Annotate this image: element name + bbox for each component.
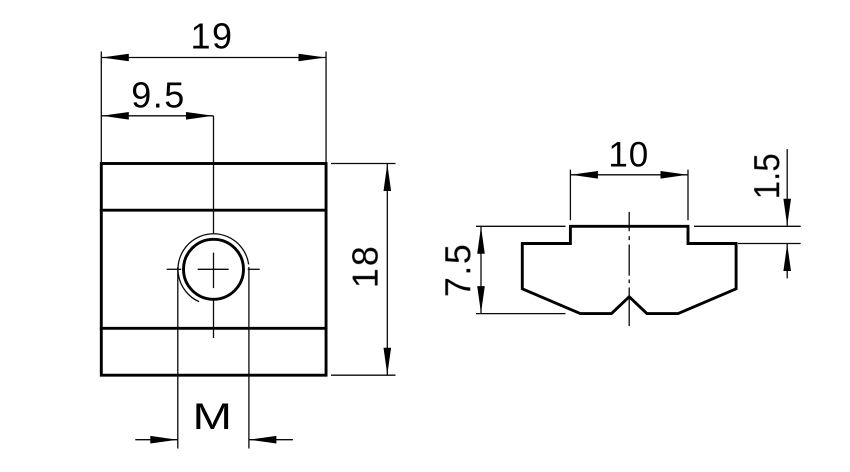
dimension 18 arrow bottom xyxy=(384,348,392,375)
hole centerline vertical xyxy=(213,116,215,338)
svg-text:18: 18 xyxy=(345,244,386,288)
dimension 1.5 arrow upper xyxy=(783,199,791,226)
dimension 7.5 extension line bottom xyxy=(476,313,566,315)
dimension 18 line xyxy=(386,164,388,376)
dimension 19 extension line left xyxy=(100,52,102,163)
dimension M extension line left xyxy=(177,267,179,449)
side profile outline xyxy=(522,226,736,313)
svg-text:9.5: 9.5 xyxy=(131,75,186,116)
dimension 7.5 extension line top xyxy=(476,225,566,227)
svg-text:10: 10 xyxy=(608,135,649,174)
dimension 10 extension line right xyxy=(687,170,689,221)
dimension 9.5 arrow left xyxy=(102,112,129,120)
dimension 7.5 line xyxy=(480,226,482,313)
dimension 18 extension line top xyxy=(331,163,396,165)
threaded hole circle xyxy=(184,239,244,299)
dimension M extension line right xyxy=(248,267,250,449)
dimension 1.5 arrow lower xyxy=(783,244,791,271)
dimension 10 line xyxy=(570,174,688,176)
groove line lower xyxy=(101,327,326,330)
svg-text:1.5: 1.5 xyxy=(746,153,787,199)
side profile centerline xyxy=(628,212,630,326)
dimension M arrow left xyxy=(150,436,177,444)
dimension 9.5 line xyxy=(101,115,213,117)
dimension 10 arrow right xyxy=(661,171,688,179)
dimension 1.5 line upper xyxy=(786,149,788,226)
svg-text:M: M xyxy=(193,396,233,437)
dimension 9.5 arrow right xyxy=(186,112,213,120)
front view body outline xyxy=(101,164,326,376)
dimension 1.5 extension line bottom xyxy=(738,243,801,245)
dimension M line left tail xyxy=(135,439,178,441)
dimension 7.5 arrow top xyxy=(477,227,485,254)
dimension 18 extension line bottom xyxy=(331,374,396,376)
groove line upper xyxy=(101,209,326,212)
dimension 19 arrow right xyxy=(299,54,326,62)
dimension 19 extension line right xyxy=(325,52,327,163)
dimension 10 extension line left xyxy=(569,170,571,221)
svg-text:7.5: 7.5 xyxy=(437,243,478,298)
dimension M line right tail xyxy=(249,439,293,441)
dimension 18 arrow top xyxy=(384,164,392,191)
dimension 1.5 line lower xyxy=(786,244,788,279)
dimension 10 arrow left xyxy=(571,171,598,179)
dimension M arrow right xyxy=(249,436,276,444)
thread outer arc xyxy=(178,234,249,302)
hole centerline horizontal xyxy=(167,268,260,270)
svg-text:19: 19 xyxy=(190,16,233,57)
dimension 19 line xyxy=(101,57,326,59)
dimension 19 arrow left xyxy=(102,54,129,62)
dimension 1.5 extension line top xyxy=(694,225,801,227)
dimension 7.5 arrow bottom xyxy=(477,286,485,313)
